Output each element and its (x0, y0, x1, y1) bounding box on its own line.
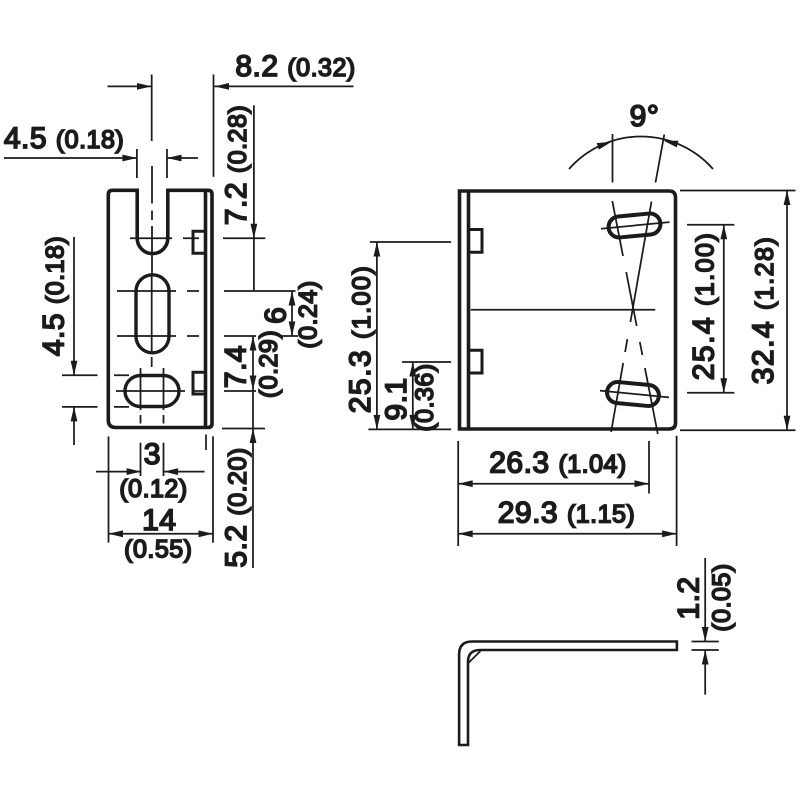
dim 4.5 top extension lines (137, 149, 167, 178)
dim 1.2 dimension line (704, 558, 706, 695)
front view bottom-slot right arc centerline (163, 368, 165, 476)
dim 26.3 extension lines (458, 441, 649, 546)
front view bracket plate outline (108, 190, 212, 427)
svg-text:26.3 (1.04): 26.3 (1.04) (489, 447, 627, 480)
svg-text:5.2 (0.20): 5.2 (0.20) (220, 447, 253, 567)
side view lower slanted slot (606, 381, 660, 407)
angle 9 arc (569, 136, 713, 169)
dim 25.3 dimension line (376, 242, 378, 429)
side view lower slot axis line (600, 391, 669, 398)
svg-text:25.4 (1.00): 25.4 (1.00) (687, 232, 720, 381)
dim 14 dimension line (109, 533, 214, 535)
front view vertical centerline (151, 75, 153, 368)
side view plate outline (460, 191, 676, 429)
dim 4.5 left extension lines (62, 375, 129, 407)
side view tilt line Q (611, 202, 651, 433)
front view bottom-slot horizontal centerline (116, 390, 256, 392)
front view middle slot (136, 275, 169, 353)
dim 9.1 extension line (402, 361, 451, 363)
dim 26.3 dimension line (458, 483, 649, 485)
angle 9 right leg (656, 135, 665, 183)
side view lower tab (469, 350, 483, 373)
dim 29.3 dimension line (458, 533, 676, 535)
dim 25.3 extension lines (368, 242, 451, 429)
dim 9.1 dimension line (412, 362, 414, 429)
svg-text:14: 14 (142, 504, 176, 537)
dim 7.2 dimension line (253, 105, 255, 291)
svg-text:7.2 (0.28): 7.2 (0.28) (220, 105, 253, 225)
front view mid-slot lower arc centerline (117, 335, 298, 337)
svg-text:3: 3 (144, 438, 161, 471)
front view mid-slot upper arc centerline (117, 290, 296, 292)
front view upper tab (193, 231, 206, 253)
dim 14 extension lines (109, 436, 214, 542)
side view upper slanted slot (608, 213, 662, 239)
front view bottom-slot left arc centerline (140, 368, 142, 476)
svg-text:8.2 (0.32): 8.2 (0.32) (235, 50, 355, 83)
svg-text:1.2: 1.2 (673, 576, 706, 619)
svg-text:(0.55): (0.55) (124, 536, 192, 564)
svg-text:9°: 9° (630, 100, 660, 133)
dim 7.4 dimension line (252, 336, 254, 390)
bend line extension below plate (205, 435, 207, 451)
dim 4.5 top dimension line (4, 157, 198, 159)
svg-text:(0.24): (0.24) (295, 280, 323, 348)
svg-text:(0.12): (0.12) (119, 475, 187, 503)
dim 8.2 extension line right edge (213, 74, 215, 176)
svg-text:(0.05): (0.05) (708, 563, 736, 631)
front view lower tab (193, 372, 206, 394)
side view horizontal centerline (471, 309, 656, 311)
svg-text:4.5 (0.18): 4.5 (0.18) (4, 122, 124, 155)
svg-text:9.1: 9.1 (380, 377, 413, 420)
svg-text:6: 6 (260, 307, 293, 324)
svg-text:(0.29): (0.29) (255, 330, 283, 398)
svg-text:4.5 (0.18): 4.5 (0.18) (38, 236, 71, 356)
dim 25.4 dimension line (723, 225, 725, 393)
dim 32.4 extension lines (680, 191, 796, 431)
side view upper tab (469, 230, 483, 253)
dim 8.2 dimension line (108, 85, 354, 87)
dim 6 dimension line (291, 291, 293, 336)
dim 4.5 left dimension line (73, 237, 75, 445)
front view slot-center horizontal centerline (130, 237, 265, 239)
svg-text:7.4: 7.4 (220, 345, 253, 388)
dim 29.3 extension line (676, 436, 678, 546)
svg-text:29.3 (1.15): 29.3 (1.15) (498, 497, 636, 530)
dim 3 dimension line (96, 471, 205, 473)
side view bend line (467, 191, 471, 429)
dim 1.2 extension lines (692, 642, 719, 651)
side view upper slot axis line (601, 222, 670, 229)
dim 5.2 dimension line (252, 390, 254, 568)
dim 5.2 extension line (222, 428, 265, 430)
svg-text:25.3 (1.00): 25.3 (1.00) (344, 265, 377, 414)
front view bottom slot (125, 376, 179, 407)
dim 25.4 extension lines (687, 225, 734, 393)
dim 32.4 dimension line (786, 191, 788, 431)
angle 9 left leg (612, 134, 614, 183)
bent profile bend tangent line (469, 651, 481, 663)
svg-text:(0.36): (0.36) (411, 363, 439, 431)
svg-text:32.4 (1.28): 32.4 (1.28) (747, 236, 780, 385)
front view bend line (204, 190, 208, 427)
side view tilt line P (612, 201, 658, 434)
bent profile view (459, 642, 677, 746)
